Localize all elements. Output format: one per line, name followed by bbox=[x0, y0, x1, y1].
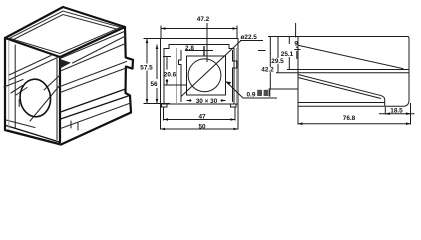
svg-text:18.5: 18.5 bbox=[390, 108, 403, 115]
svg-text:47: 47 bbox=[198, 114, 206, 121]
svg-text:ø22.5: ø22.5 bbox=[241, 34, 258, 41]
svg-text:56: 56 bbox=[150, 81, 158, 88]
svg-text:47.2: 47.2 bbox=[197, 16, 210, 23]
svg-text:0.9: 0.9 bbox=[247, 91, 256, 98]
svg-text:42.2: 42.2 bbox=[261, 67, 274, 74]
svg-text:25.1: 25.1 bbox=[281, 51, 294, 58]
svg-text:20.6: 20.6 bbox=[164, 72, 177, 79]
svg-text:57.5: 57.5 bbox=[140, 64, 153, 71]
svg-text:29.5: 29.5 bbox=[271, 58, 284, 65]
svg-text:50: 50 bbox=[198, 123, 206, 130]
svg-text:76.8: 76.8 bbox=[343, 115, 356, 122]
svg-text:30 × 30: 30 × 30 bbox=[196, 98, 218, 105]
svg-text:9: 9 bbox=[294, 40, 298, 47]
